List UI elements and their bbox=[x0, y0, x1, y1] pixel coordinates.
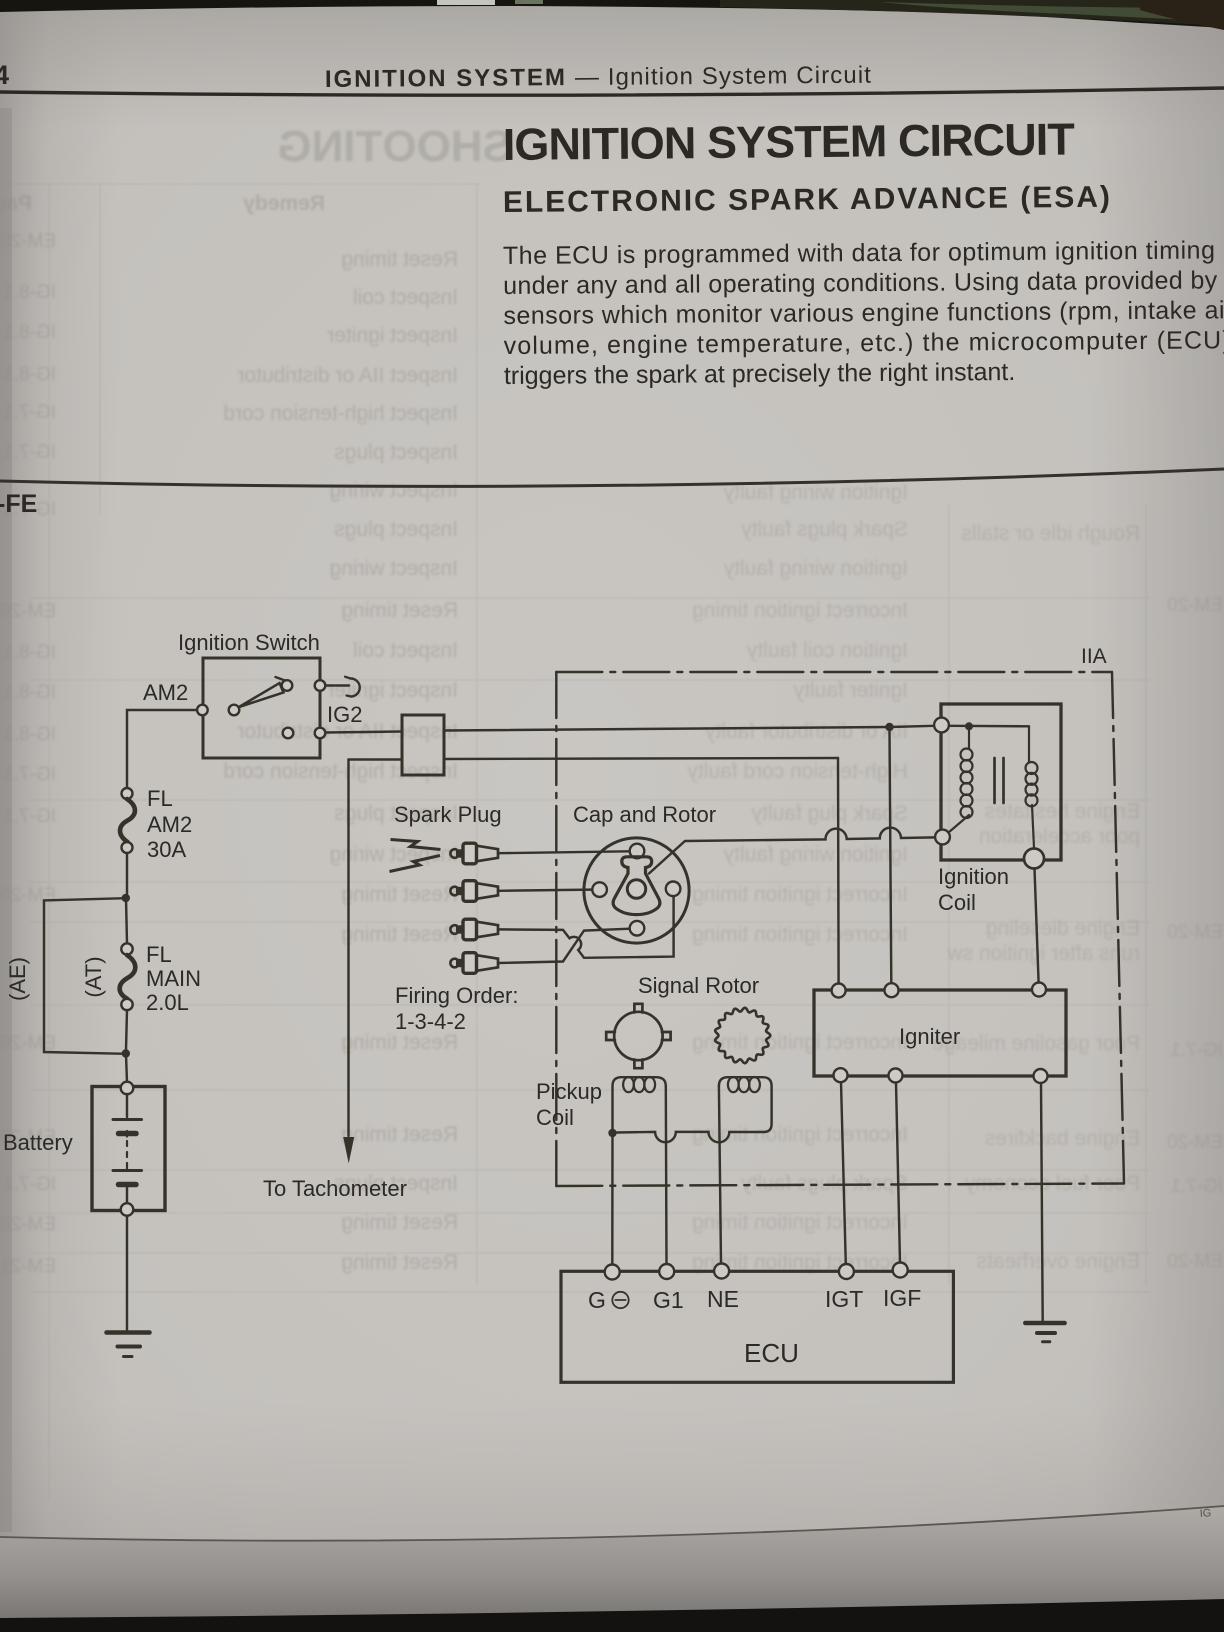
svg-text:Ignition coil faulty: Ignition coil faulty bbox=[746, 639, 908, 662]
svg-text:EM-20: EM-20 bbox=[1167, 1132, 1223, 1153]
svg-text:Poor gasoline mileage: Poor gasoline mileage bbox=[932, 1032, 1140, 1055]
svg-text:Engine backfires: Engine backfires bbox=[985, 1127, 1140, 1150]
coil terminal high tension bbox=[935, 830, 950, 845]
svg-text:Reset timing: Reset timing bbox=[341, 1251, 458, 1274]
svg-text:IG-7.1: IG-7.1 bbox=[3, 806, 56, 827]
svg-text:IG-7.1: IG-7.1 bbox=[3, 402, 56, 423]
switch common contact bbox=[229, 705, 240, 716]
wire battery to ground bbox=[126, 1216, 128, 1330]
switch terminal upper right bbox=[315, 680, 326, 691]
wire plug2 to cap terminal 2 bbox=[498, 890, 592, 891]
wire IGT igniter to ECU bbox=[841, 1082, 846, 1264]
svg-text:— Ignition System Circuit: — Ignition System Circuit bbox=[575, 62, 872, 91]
coil core bbox=[993, 758, 996, 803]
svg-text:IIA or distributor faulty: IIA or distributor faulty bbox=[704, 720, 908, 743]
arrow to tachometer bbox=[343, 1137, 354, 1164]
svg-text:EM-20: EM-20 bbox=[0, 885, 56, 906]
svg-text:IG2: IG2 bbox=[327, 702, 362, 727]
pickup coil G assembly bbox=[613, 1077, 666, 1131]
svg-text:MAIN: MAIN bbox=[146, 966, 201, 991]
svg-text:Inspect IIA or distributor: Inspect IIA or distributor bbox=[237, 364, 458, 387]
switch terminal AM2 (left) bbox=[197, 705, 208, 716]
svg-text:Incorrect ignition timing: Incorrect ignition timing bbox=[692, 1211, 908, 1234]
switch contact lower (IG2) bbox=[283, 728, 294, 739]
fusible link FL AM2 30A bbox=[122, 788, 133, 799]
spark plug 1 bbox=[450, 849, 456, 858]
cap terminal right bbox=[666, 882, 681, 897]
fusible link FL MAIN 2.0L bbox=[121, 943, 132, 954]
igniter terminal bottom right bbox=[1034, 1069, 1048, 1083]
node pickup common junction bbox=[608, 1129, 616, 1137]
rotor body bbox=[613, 857, 660, 915]
svg-text:sensors which monitor various: sensors which monitor various engine fun… bbox=[503, 296, 1224, 330]
igniter terminal top middle bbox=[885, 983, 899, 997]
wire FL MAIN to lower junction bbox=[126, 1010, 127, 1050]
svg-text:Incorrect ignition timing: Incorrect ignition timing bbox=[692, 1123, 908, 1146]
svg-text:Inspect plugs: Inspect plugs bbox=[334, 518, 458, 541]
svg-text:volume, engine temperature, et: volume, engine temperature, etc.) the mi… bbox=[504, 326, 1224, 360]
svg-text:Spark plugs faulty: Spark plugs faulty bbox=[741, 518, 908, 541]
node junction lower (AE/AT rejoin) bbox=[122, 1049, 130, 1057]
svg-text:Page: Page bbox=[0, 192, 32, 215]
signal rotor NE (toothed) bbox=[715, 1008, 770, 1063]
signal rotor G (4-lobe) bbox=[614, 1012, 662, 1060]
wire G1 to ECU bbox=[665, 1086, 668, 1264]
ECU box bbox=[561, 1271, 953, 1382]
bottom page edge of underlying page bbox=[0, 1506, 1224, 1632]
coil terminal positive bbox=[934, 718, 949, 733]
svg-text:AM2: AM2 bbox=[143, 680, 188, 705]
svg-text:Coil: Coil bbox=[938, 890, 976, 915]
wire coil secondary to igniter bbox=[1035, 869, 1039, 983]
svg-text:EM-20: EM-20 bbox=[1167, 922, 1223, 943]
svg-text:30A: 30A bbox=[147, 837, 186, 862]
ignition switch box bbox=[203, 658, 320, 758]
svg-text:NE: NE bbox=[707, 1286, 739, 1312]
svg-text:High-tension cord faulty: High-tension cord faulty bbox=[687, 760, 908, 783]
svg-text:Igniter: Igniter bbox=[899, 1024, 960, 1049]
svg-text:G: G bbox=[588, 1287, 606, 1313]
wire plug1 to cap terminal 1 bbox=[498, 851, 630, 853]
wire NE to ECU bbox=[719, 1086, 721, 1264]
distributor cap circle bbox=[584, 838, 689, 943]
svg-text:Remedy: Remedy bbox=[243, 192, 325, 215]
svg-text:Incorrect ignition timing: Incorrect ignition timing bbox=[692, 883, 908, 906]
wire junction to FL MAIN bbox=[126, 898, 127, 944]
rotor center post bbox=[627, 880, 645, 898]
svg-text:(AT): (AT) bbox=[81, 956, 106, 997]
svg-text:The ECU is programmed with dat: The ECU is programmed with data for opti… bbox=[503, 236, 1215, 270]
svg-text:Spark plug faulty: Spark plug faulty bbox=[751, 802, 908, 825]
dark photo background bottom band bbox=[0, 1599, 1224, 1632]
ECU terminal IGF bbox=[893, 1263, 908, 1278]
wire junction down to igniter bbox=[890, 731, 892, 983]
svg-text:Engine overheats: Engine overheats bbox=[977, 1250, 1140, 1273]
svg-text:IG: IG bbox=[1199, 1507, 1211, 1520]
battery box bbox=[92, 1087, 165, 1211]
battery negative terminal bbox=[121, 1203, 134, 1216]
spark flash symbol bbox=[390, 840, 441, 872]
svg-text:IG-7.1: IG-7.1 bbox=[3, 1174, 56, 1195]
svg-text:EM-20: EM-20 bbox=[0, 1214, 56, 1235]
svg-text:Reset timing: Reset timing bbox=[341, 923, 458, 946]
svg-text:IG-8.1: IG-8.1 bbox=[3, 364, 56, 385]
svg-text:Inspect coil: Inspect coil bbox=[353, 639, 458, 662]
svg-text:IG-7.1: IG-7.1 bbox=[1170, 1040, 1223, 1061]
cap terminal 2 left bbox=[592, 882, 607, 897]
svg-text:2.0L: 2.0L bbox=[146, 990, 189, 1015]
node junction igniter feed bbox=[885, 723, 893, 731]
ECU terminal G bbox=[605, 1265, 620, 1280]
igniter terminal bottom middle bbox=[889, 1069, 903, 1083]
svg-text:(AE): (AE) bbox=[5, 957, 30, 1001]
svg-text:Inspect igniter: Inspect igniter bbox=[327, 679, 458, 702]
svg-text:Ignition: Ignition bbox=[938, 864, 1009, 889]
svg-text:Ignition wiring faulty: Ignition wiring faulty bbox=[723, 557, 908, 580]
svg-text:under any and all operating co: under any and all operating conditions. … bbox=[503, 266, 1218, 300]
svg-text:Incorrect ignition timing: Incorrect ignition timing bbox=[692, 599, 908, 622]
ground right (distributor) bbox=[1025, 1321, 1064, 1326]
svg-text:Cap and Rotor: Cap and Rotor bbox=[573, 802, 716, 827]
svg-text:Reset timing: Reset timing bbox=[341, 248, 458, 271]
svg-text:IG-7.1: IG-7.1 bbox=[3, 764, 56, 785]
svg-text:Inspect plugs: Inspect plugs bbox=[334, 441, 458, 464]
svg-text:triggers the spark at precisel: triggers the spark at precisely the righ… bbox=[504, 358, 1016, 390]
svg-text:Inspect wiring: Inspect wiring bbox=[330, 557, 458, 580]
svg-text:FL: FL bbox=[146, 942, 172, 967]
wire plug4 crossover to cap bottom terminal bbox=[498, 929, 630, 963]
ghost bleed-through layer bbox=[0, 183, 1150, 1500]
wire upper terminal stub with curl bbox=[326, 684, 350, 686]
wire IG2 to noise filter bbox=[326, 732, 403, 733]
noise filter box bbox=[402, 715, 444, 775]
svg-text:EM-20: EM-20 bbox=[0, 1033, 56, 1054]
igniter terminal top right bbox=[1032, 983, 1046, 997]
ECU terminal NE bbox=[714, 1264, 729, 1279]
running header bbox=[325, 62, 872, 93]
svg-text:Rough idle or stalls: Rough idle or stalls bbox=[961, 522, 1140, 545]
svg-text:IG-8.1: IG-8.1 bbox=[3, 282, 56, 303]
svg-text:IGT: IGT bbox=[825, 1286, 863, 1312]
svg-text:Battery: Battery bbox=[3, 1130, 73, 1155]
switch contact upper bbox=[282, 680, 293, 691]
svg-text:4: 4 bbox=[0, 60, 9, 90]
wire corner down to igniter left bbox=[837, 758, 840, 984]
wire to tachometer vertical bbox=[347, 760, 349, 1137]
ECU terminal IGT bbox=[839, 1264, 854, 1279]
-FE section rule bbox=[0, 469, 1224, 486]
high tension lead coil to rotor bbox=[649, 828, 935, 874]
ground battery bbox=[107, 1330, 150, 1335]
switch terminal IG2 right bbox=[315, 728, 326, 739]
svg-text:To Tachometer: To Tachometer bbox=[263, 1176, 407, 1201]
spark plug 4 bbox=[450, 959, 456, 968]
svg-text:Reset timing: Reset timing bbox=[341, 1031, 458, 1054]
coil terminal secondary ground bbox=[1024, 849, 1044, 869]
wire tachometer/igniter branch lower bbox=[349, 758, 403, 760]
IIA distributor assembly dashed boundary bbox=[556, 672, 1124, 1186]
svg-text:Inspect high-tension cord: Inspect high-tension cord bbox=[223, 760, 458, 783]
svg-text:Inspect igniter: Inspect igniter bbox=[327, 324, 458, 347]
battery internal plates bbox=[126, 1094, 128, 1117]
svg-text:1-3-4-2: 1-3-4-2 bbox=[395, 1009, 466, 1034]
svg-text:IG-8.1: IG-8.1 bbox=[3, 724, 56, 745]
svg-text:IG-8.1: IG-8.1 bbox=[3, 682, 56, 703]
header rule bbox=[0, 88, 1224, 95]
svg-text:IGNITION SYSTEM: IGNITION SYSTEM bbox=[325, 64, 565, 93]
svg-text:IG-7.1: IG-7.1 bbox=[1170, 1176, 1223, 1197]
igniter box bbox=[814, 990, 1066, 1076]
node coil internal junction bbox=[965, 722, 973, 730]
wire plug3 crossover to cap right terminal bbox=[498, 896, 674, 957]
wire igniter to right ground bbox=[1041, 1083, 1043, 1321]
svg-text:IGNITION SYSTEM CIRCUIT: IGNITION SYSTEM CIRCUIT bbox=[503, 114, 1075, 170]
wire junction to battery bbox=[126, 1054, 127, 1083]
svg-text:IG-7.1: IG-7.1 bbox=[3, 442, 56, 463]
wire noise filter to ignition coil positive bbox=[444, 726, 934, 731]
svg-text:Igniter faulty: Igniter faulty bbox=[793, 679, 908, 702]
svg-text:Inspect wiring: Inspect wiring bbox=[330, 479, 458, 502]
node junction upper (AE/AT split) bbox=[122, 894, 130, 902]
svg-text:Pickup: Pickup bbox=[536, 1079, 602, 1104]
svg-text:AM2: AM2 bbox=[147, 812, 192, 837]
pickup coil NE assembly bbox=[617, 1077, 772, 1142]
svg-text:FL: FL bbox=[147, 786, 173, 811]
svg-text:IIA: IIA bbox=[1081, 645, 1107, 668]
coil primary winding bbox=[968, 730, 970, 749]
svg-text:IG-8.1: IG-8.1 bbox=[3, 642, 56, 663]
svg-text:IGF: IGF bbox=[883, 1285, 921, 1311]
svg-text:EM-20: EM-20 bbox=[1167, 1251, 1223, 1272]
svg-text:EM-21: EM-21 bbox=[0, 1256, 56, 1277]
svg-text:Inspect coil: Inspect coil bbox=[353, 286, 458, 309]
cap terminal 1 top bbox=[630, 844, 645, 859]
svg-text:Incorrect ignition timing: Incorrect ignition timing bbox=[692, 923, 908, 946]
dark photo background top band bbox=[0, 0, 1224, 28]
svg-text:Reset timing: Reset timing bbox=[341, 1211, 458, 1234]
svg-text:Reset timing: Reset timing bbox=[341, 1123, 458, 1146]
spark plug 3 bbox=[450, 925, 456, 934]
svg-text:EM-20: EM-20 bbox=[0, 231, 56, 252]
igniter terminal bottom left bbox=[834, 1068, 848, 1082]
coil secondary winding bbox=[1028, 726, 1030, 762]
svg-text:Signal Rotor: Signal Rotor bbox=[638, 973, 759, 998]
paragraph bbox=[503, 236, 1224, 390]
cap terminal bottom bbox=[630, 921, 645, 936]
wire G to ECU bbox=[611, 1131, 614, 1265]
svg-text:Firing Order:: Firing Order: bbox=[395, 983, 518, 1008]
wire IGF igniter to ECU bbox=[896, 1083, 900, 1263]
spark plug 2 bbox=[450, 887, 456, 896]
svg-text:Ignition Switch: Ignition Switch bbox=[178, 630, 320, 655]
svg-text:Inspect high-tension cord: Inspect high-tension cord bbox=[223, 402, 458, 425]
svg-text:IG-8.1: IG-8.1 bbox=[3, 322, 56, 343]
wire (AE) bypass branch bbox=[44, 898, 126, 1054]
svg-text:EM-20: EM-20 bbox=[0, 601, 56, 622]
svg-text:ECU: ECU bbox=[744, 1338, 799, 1368]
svg-text:runs after ignition sw: runs after ignition sw bbox=[947, 942, 1140, 965]
svg-text:Reset timing: Reset timing bbox=[341, 883, 458, 906]
wire FL-AM2 to junction bbox=[126, 853, 128, 894]
svg-text:G1: G1 bbox=[653, 1287, 684, 1313]
ECU terminal G1 bbox=[659, 1264, 674, 1279]
wire AM2 feed from ignition switch to battery column bbox=[127, 710, 202, 788]
switch blade bbox=[239, 683, 284, 707]
svg-text:-FE: -FE bbox=[0, 490, 37, 518]
svg-text:Spark Plug: Spark Plug bbox=[394, 802, 502, 827]
battery positive terminal bbox=[121, 1082, 134, 1095]
svg-text:SHOOTING: SHOOTING bbox=[277, 122, 512, 171]
igniter terminal top left bbox=[832, 984, 846, 998]
svg-text:Ignition wiring faulty: Ignition wiring faulty bbox=[723, 843, 908, 866]
svg-text:Coil: Coil bbox=[536, 1105, 574, 1130]
coil internal top link bbox=[949, 725, 1029, 728]
svg-text:EM-20: EM-20 bbox=[1167, 595, 1223, 616]
svg-text:Reset timing: Reset timing bbox=[341, 599, 458, 622]
ignition coil box bbox=[941, 704, 1061, 860]
